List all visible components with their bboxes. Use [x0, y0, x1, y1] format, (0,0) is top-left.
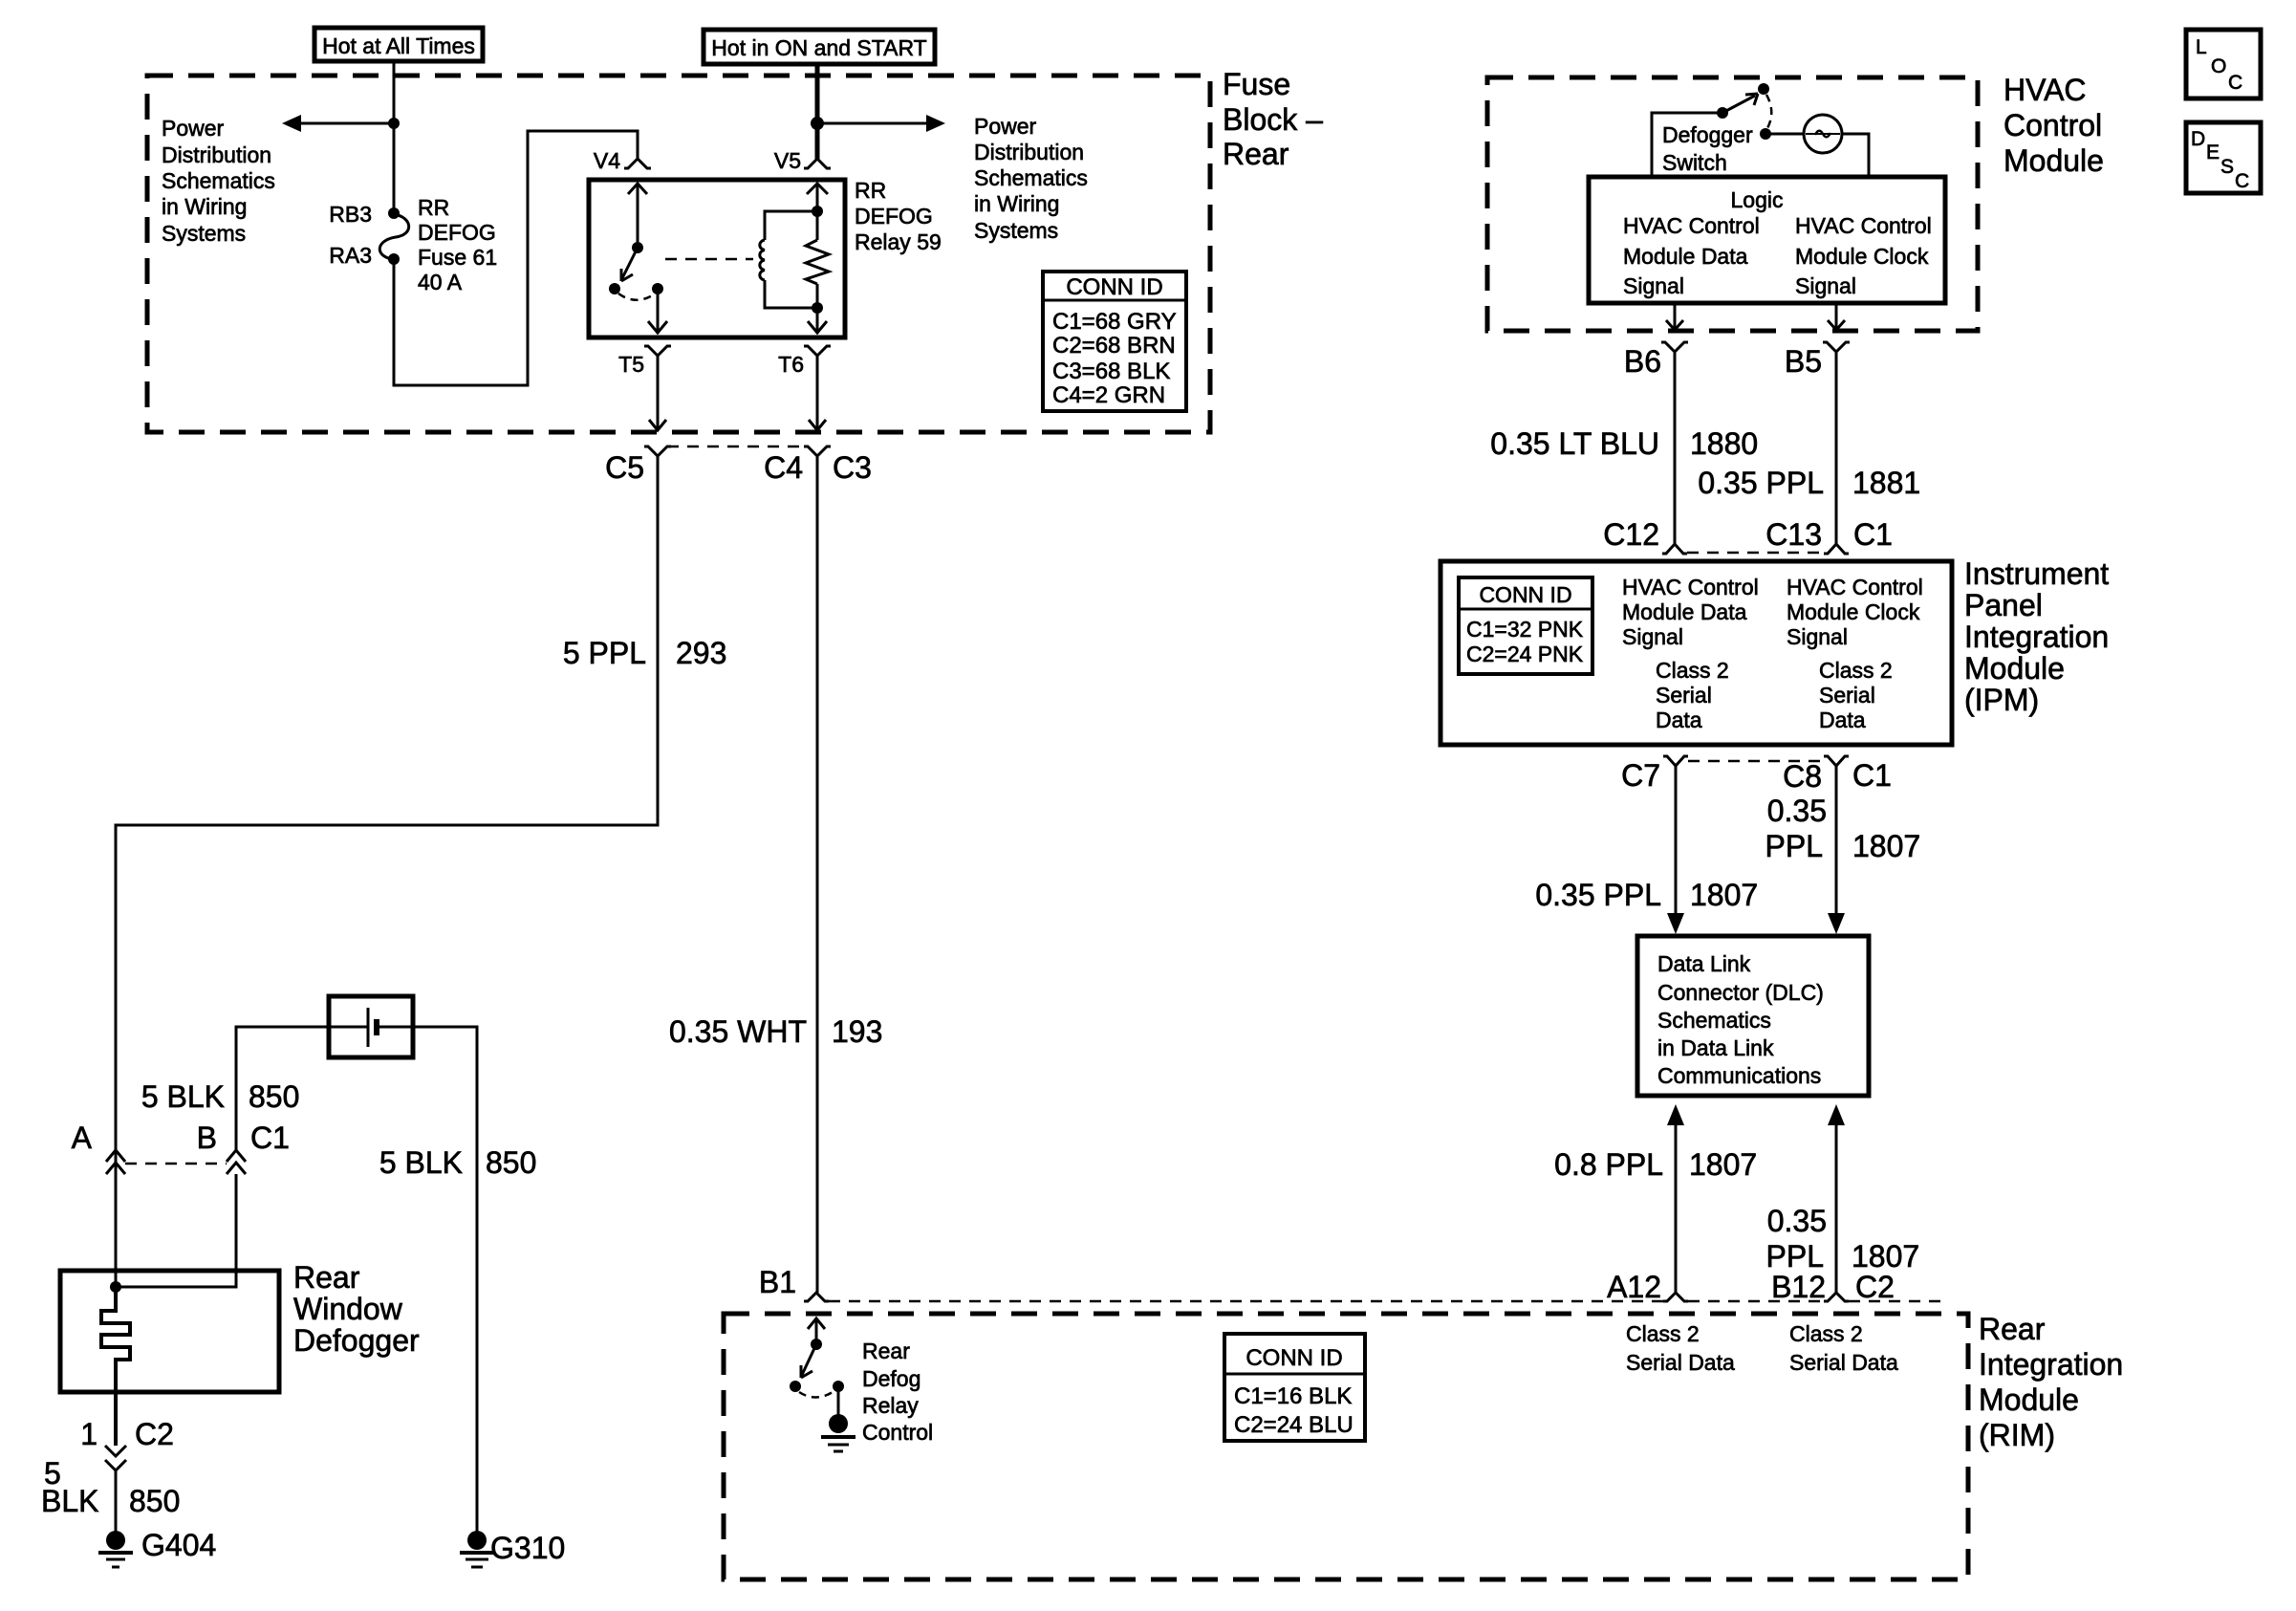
relay switch (movable contact): [609, 184, 667, 334]
relay coil: [760, 206, 823, 314]
svg-text:1807: 1807: [1852, 1239, 1919, 1274]
connector C5: [605, 446, 671, 485]
svg-text:Fuse: Fuse: [1223, 67, 1290, 101]
svg-text:C7: C7: [1621, 758, 1660, 793]
svg-text:CONN ID: CONN ID: [1066, 274, 1162, 300]
svg-text:Module: Module: [1979, 1382, 2079, 1417]
svg-text:Data Link: Data Link: [1657, 951, 1751, 976]
svg-text:C4=2 GRN: C4=2 GRN: [1052, 382, 1165, 408]
svg-text:0.35 WHT: 0.35 WHT: [669, 1014, 807, 1049]
svg-text:D: D: [2191, 128, 2205, 150]
svg-text:0.35 PPL: 0.35 PPL: [1535, 878, 1661, 912]
svg-text:0.35: 0.35: [1767, 794, 1827, 828]
svg-text:Serial Data: Serial Data: [1789, 1350, 1898, 1375]
svg-text:Class 2: Class 2: [1819, 658, 1893, 683]
connector C13 / C1: [1765, 517, 1893, 554]
svg-text:Logic: Logic: [1731, 187, 1784, 212]
svg-text:0.8 PPL: 0.8 PPL: [1554, 1147, 1663, 1182]
svg-text:HVAC Control: HVAC Control: [1787, 575, 1923, 599]
svg-text:850: 850: [486, 1145, 536, 1180]
wire: dashed connector pair link B1-A12-B12: [829, 1300, 1940, 1303]
svg-text:C1: C1: [1853, 517, 1893, 552]
wire: dashed connector pair link C5-C4: [667, 446, 808, 448]
module box: HVAC Control Module (dashed): [1487, 73, 2104, 331]
svg-text:C2=68 BRN: C2=68 BRN: [1052, 333, 1176, 359]
svg-text:in Wiring: in Wiring: [162, 194, 247, 219]
svg-text:V5: V5: [774, 148, 801, 173]
svg-text:HVAC Control: HVAC Control: [1795, 213, 1932, 238]
node: junction on battery feed: [388, 118, 400, 129]
svg-text:HVAC Control: HVAC Control: [1623, 213, 1760, 238]
svg-text:G310: G310: [490, 1531, 565, 1565]
svg-text:Signal: Signal: [1795, 273, 1856, 298]
wire: B/C1 into defogger box: [116, 1174, 236, 1287]
connector A: [72, 1121, 125, 1174]
svg-text:T6: T6: [778, 352, 804, 377]
wire: from B/C1 up and right to battery feed box: [236, 1027, 329, 1150]
svg-text:G404: G404: [141, 1528, 216, 1562]
svg-text:850: 850: [129, 1484, 180, 1518]
svg-text:Rear: Rear: [862, 1339, 910, 1363]
connector B1: [759, 1265, 829, 1301]
connector B5: [1785, 342, 1850, 379]
svg-text:Module: Module: [1964, 651, 2065, 686]
connector V5: [774, 148, 831, 173]
svg-text:Defog: Defog: [862, 1366, 921, 1391]
svg-text:Signal: Signal: [1622, 624, 1683, 649]
label box: Hot in ON and START: [704, 30, 935, 64]
svg-text:CONN ID: CONN ID: [1245, 1345, 1342, 1371]
wire: circuit 293 from C5 down-left to connector A: [116, 456, 658, 1150]
svg-text:193: 193: [832, 1014, 882, 1049]
label: 0.35 PPL 1807 (right): [1765, 794, 1921, 863]
svg-text:O: O: [2211, 55, 2226, 77]
wire: A into defogger box: [115, 1150, 118, 1297]
text: Class 2 Serial Data (B12): [1789, 1321, 1898, 1375]
label: 0.35 LT BLU 1880: [1490, 426, 1758, 461]
svg-text:0.35 PPL: 0.35 PPL: [1698, 466, 1824, 500]
svg-text:Fuse 61: Fuse 61: [418, 245, 497, 270]
svg-text:V4: V4: [594, 148, 620, 173]
svg-text:Module: Module: [2004, 143, 2104, 178]
svg-text:Module Data: Module Data: [1623, 244, 1748, 269]
wire: circuit 1807 C8/C1 to DLC: [1828, 766, 1845, 934]
wire: arrow to Power Distribution Schematics (left): [162, 115, 394, 246]
svg-text:RB3: RB3: [329, 202, 372, 227]
CONN ID table (fuse block): [1043, 272, 1186, 411]
svg-text:HVAC: HVAC: [2004, 73, 2087, 107]
connector B6: [1624, 342, 1688, 379]
svg-text:Relay 59: Relay 59: [855, 229, 942, 254]
svg-text:5 PPL: 5 PPL: [563, 636, 646, 670]
svg-text:L: L: [2196, 36, 2207, 58]
svg-text:C8: C8: [1783, 759, 1822, 794]
module box: Fuse Block - Rear (dashed): [147, 67, 1323, 432]
svg-text:HVAC Control: HVAC Control: [1622, 575, 1759, 599]
svg-text:1807: 1807: [1852, 829, 1920, 863]
wire: T5 to C5 crossing fuse block border: [649, 356, 666, 430]
svg-text:Signal: Signal: [1623, 273, 1684, 298]
connector B / C1: [197, 1121, 290, 1174]
svg-text:Defogger: Defogger: [293, 1323, 420, 1358]
svg-text:B6: B6: [1624, 344, 1661, 379]
svg-text:DEFOG: DEFOG: [855, 204, 933, 229]
connector C12: [1603, 517, 1687, 554]
svg-text:Hot in ON and START: Hot in ON and START: [711, 35, 926, 60]
wire: circuit 1807 A12 up to DLC: [1667, 1104, 1684, 1293]
svg-text:RR: RR: [418, 195, 449, 220]
svg-text:Defogger: Defogger: [1662, 122, 1753, 147]
svg-text:Schematics: Schematics: [1657, 1008, 1771, 1033]
label: 5 PPL 293: [563, 636, 727, 670]
svg-text:C5: C5: [605, 450, 644, 485]
label: 5 BLK 850 (B wire): [141, 1079, 300, 1114]
svg-text:C1=68 GRY: C1=68 GRY: [1052, 309, 1177, 335]
rear defog relay control switch: [790, 1318, 933, 1445]
svg-text:C3: C3: [833, 450, 872, 485]
svg-text:B12: B12: [1771, 1270, 1826, 1304]
svg-text:Serial: Serial: [1656, 683, 1712, 708]
svg-text:Hot at All Times: Hot at All Times: [322, 33, 475, 58]
svg-text:Module Clock: Module Clock: [1795, 244, 1929, 269]
svg-text:B1: B1: [759, 1265, 796, 1299]
svg-text:Distribution: Distribution: [974, 140, 1084, 164]
connector T5: [618, 346, 671, 377]
svg-text:Distribution: Distribution: [162, 142, 271, 167]
wire: T6 to C4 crossing fuse block border: [809, 356, 826, 430]
LOC legend box: [2186, 30, 2261, 98]
svg-text:Module Clock: Module Clock: [1787, 599, 1920, 624]
svg-text:C13: C13: [1765, 517, 1822, 552]
svg-text:C1=16 BLK: C1=16 BLK: [1234, 1383, 1352, 1409]
svg-text:Control: Control: [2004, 108, 2102, 142]
svg-text:C1: C1: [1852, 758, 1892, 793]
ground G310: [460, 1531, 565, 1567]
CONN ID table (IPM): [1459, 577, 1592, 674]
wire: dashed connector pair link C7-C8: [1688, 760, 1824, 763]
svg-text:293: 293: [676, 636, 726, 670]
svg-text:C1=32 PNK: C1=32 PNK: [1466, 617, 1584, 642]
relay box: RR DEFOG Relay 59: [589, 178, 942, 337]
svg-text:Class 2: Class 2: [1626, 1321, 1700, 1346]
component box: Rear Window Defogger: [60, 1260, 420, 1392]
connector C8 / C1: [1783, 756, 1892, 794]
wire: Hot in ON and START feed to relay V5: [815, 64, 820, 159]
svg-text:C2=24 BLU: C2=24 BLU: [1234, 1412, 1354, 1438]
wire: fuse output to relay V4: [394, 131, 638, 385]
svg-text:PPL: PPL: [1766, 1239, 1824, 1274]
connector 1 / C2: [80, 1417, 174, 1470]
wire: B6 output crossing HVAC border: [1666, 303, 1683, 330]
svg-text:DEFOG: DEFOG: [418, 220, 496, 245]
DESC legend box: [2186, 122, 2261, 193]
svg-text:Schematics: Schematics: [162, 168, 275, 193]
svg-text:A: A: [72, 1121, 93, 1155]
svg-text:S: S: [2220, 156, 2234, 178]
svg-text:Connector (DLC): Connector (DLC): [1657, 980, 1824, 1005]
svg-text:Class 2: Class 2: [1789, 1321, 1863, 1346]
svg-text:in Wiring: in Wiring: [974, 191, 1059, 216]
svg-text:Integration: Integration: [1979, 1347, 2123, 1382]
wire: dashed connector pair link C12-C13: [1687, 552, 1824, 555]
wire: B5 output crossing HVAC border: [1828, 303, 1845, 330]
svg-text:C12: C12: [1603, 517, 1659, 552]
svg-text:Rear: Rear: [1979, 1312, 2046, 1346]
svg-text:T5: T5: [618, 352, 644, 377]
wire: battery box to G310: [413, 1027, 477, 1532]
wire: circuit 1880 B6 to C12: [1674, 352, 1677, 544]
svg-text:C: C: [2228, 72, 2242, 94]
connector C7: [1621, 756, 1688, 793]
svg-text:RA3: RA3: [329, 243, 372, 268]
svg-text:1807: 1807: [1689, 1147, 1757, 1182]
label: 0.8 PPL 1807: [1554, 1147, 1757, 1182]
dashed actuation link between switch and coil: [665, 258, 753, 261]
wire: circuit 193 from C3 down to B1: [816, 456, 819, 1293]
svg-text:C2: C2: [1855, 1270, 1895, 1304]
label: 0.35 PPL 1807 (left): [1535, 878, 1758, 912]
CONN ID table (RIM): [1224, 1334, 1365, 1441]
node: junction on ON/START feed: [811, 117, 824, 130]
label: 5 BLK 850 (G310 wire): [379, 1145, 537, 1180]
svg-text:Serial Data: Serial Data: [1626, 1350, 1735, 1375]
connector C4 / C3: [764, 446, 872, 485]
svg-text:Relay: Relay: [862, 1393, 919, 1418]
svg-text:E: E: [2206, 142, 2220, 163]
svg-text:Serial: Serial: [1819, 683, 1875, 708]
svg-text:1807: 1807: [1690, 878, 1758, 912]
svg-text:Switch: Switch: [1662, 150, 1727, 175]
svg-text:Systems: Systems: [974, 218, 1058, 243]
svg-text:Block –: Block –: [1223, 102, 1323, 137]
wire: to G404: [115, 1470, 118, 1532]
ground: rear defog relay control: [821, 1414, 856, 1451]
label box: Hot at All Times: [314, 28, 483, 61]
svg-text:B: B: [197, 1121, 217, 1155]
svg-text:Instrument: Instrument: [1964, 556, 2109, 591]
svg-text:0.35 LT BLU: 0.35 LT BLU: [1490, 426, 1659, 461]
component box: Data Link Connector (DLC) schematics: [1637, 936, 1869, 1096]
label: 5 BLK 850 (G404 wire): [41, 1456, 180, 1518]
svg-text:BLK: BLK: [41, 1484, 98, 1518]
svg-text:Data: Data: [1819, 708, 1866, 732]
label: 0.35 WHT 193: [669, 1014, 882, 1049]
svg-text:Communications: Communications: [1657, 1063, 1821, 1088]
svg-text:RR: RR: [855, 178, 886, 203]
svg-text:Module Data: Module Data: [1622, 599, 1747, 624]
logic box: [1589, 177, 1945, 303]
svg-text:(IPM): (IPM): [1964, 683, 2039, 717]
svg-text:Rear: Rear: [1223, 137, 1289, 171]
ground G404: [98, 1528, 216, 1567]
text: IPM signal descriptions: [1622, 575, 1923, 732]
label: 0.35 PPL 1881: [1698, 466, 1920, 500]
defogger switch: [1652, 83, 1804, 177]
battery feed box: [329, 996, 413, 1057]
svg-text:0.35: 0.35: [1767, 1204, 1827, 1238]
svg-text:Systems: Systems: [162, 221, 246, 246]
wire: circuit 1807 B12 up to DLC: [1828, 1104, 1845, 1293]
defogger heating element: [101, 1287, 130, 1446]
svg-text:C2: C2: [135, 1417, 174, 1451]
fuse: RR DEFOG Fuse 61 40 A: [329, 195, 497, 294]
label: 0.35 PPL 1807 (B12): [1766, 1204, 1920, 1274]
svg-text:Power: Power: [162, 116, 225, 141]
svg-text:850: 850: [249, 1079, 299, 1114]
svg-text:40 A: 40 A: [418, 270, 463, 294]
wire: battery feed from Hot at All Times to fuse: [393, 61, 396, 209]
module box: Instrument Panel Integration Module (IPM): [1440, 556, 2109, 745]
relay resistor: [806, 184, 829, 334]
svg-text:C4: C4: [764, 450, 803, 485]
connector B12 / C2: [1771, 1270, 1895, 1304]
svg-text:in Data Link: in Data Link: [1657, 1035, 1774, 1060]
svg-text:C3=68 BLK: C3=68 BLK: [1052, 359, 1170, 384]
text: Class 2 Serial Data (A12): [1626, 1321, 1735, 1375]
svg-text:C1: C1: [250, 1121, 290, 1155]
svg-text:Window: Window: [293, 1292, 403, 1326]
svg-text:Power: Power: [974, 114, 1037, 139]
svg-text:Control: Control: [862, 1420, 933, 1445]
wire: dashed connector pair link A-B: [125, 1163, 227, 1165]
wire: circuit 1807 C7 to DLC: [1667, 766, 1684, 934]
svg-text:5 BLK: 5 BLK: [379, 1145, 463, 1180]
svg-text:Schematics: Schematics: [974, 165, 1088, 190]
svg-text:Integration: Integration: [1964, 620, 2109, 654]
svg-text:C: C: [2235, 170, 2249, 192]
wire: arrow to Power Distribution Schematics (right): [817, 114, 1088, 243]
svg-text:1: 1: [80, 1417, 97, 1451]
svg-text:1881: 1881: [1852, 466, 1920, 500]
svg-text:Signal: Signal: [1787, 624, 1848, 649]
indicator lamp: [1804, 115, 1869, 177]
svg-text:Panel: Panel: [1964, 588, 2043, 622]
svg-text:CONN ID: CONN ID: [1479, 582, 1571, 607]
svg-text:B5: B5: [1785, 344, 1822, 379]
connector T6: [778, 346, 831, 377]
connector V4: [594, 148, 651, 173]
svg-text:Data: Data: [1656, 708, 1702, 732]
node: junction inside defogger: [110, 1281, 121, 1293]
connector A12: [1607, 1270, 1688, 1304]
svg-text:Class 2: Class 2: [1656, 658, 1729, 683]
svg-text:1880: 1880: [1690, 426, 1758, 461]
svg-text:(RIM): (RIM): [1979, 1418, 2055, 1452]
module box: Rear Integration Module (RIM) (dashed): [724, 1312, 2123, 1579]
svg-text:5 BLK: 5 BLK: [141, 1079, 225, 1114]
svg-text:C2=24 PNK: C2=24 PNK: [1466, 642, 1584, 666]
wire: circuit 1881 B5 to C13: [1835, 352, 1838, 544]
svg-text:PPL: PPL: [1765, 829, 1823, 863]
svg-text:Rear: Rear: [293, 1260, 360, 1295]
svg-text:A12: A12: [1607, 1270, 1661, 1304]
